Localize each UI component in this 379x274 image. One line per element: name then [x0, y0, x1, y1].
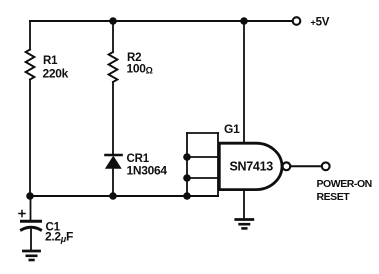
- wire R2 to CR1: [112, 82, 114, 154]
- wire R2 column upper: [112, 21, 114, 52]
- NAND gate U1 SN7413: [219, 143, 282, 189]
- svg-text:SN7413: SN7413: [230, 160, 274, 174]
- wire bottom rail: [30, 195, 218, 197]
- diode CR1: [106, 155, 122, 168]
- terminal +5V: [293, 17, 301, 25]
- wire left rail lower: [29, 80, 31, 197]
- svg-text:+5V: +5V: [311, 17, 330, 29]
- wire gate to ground: [243, 190, 245, 219]
- node junction input bus: [183, 192, 191, 200]
- node junction C1: [26, 192, 34, 200]
- capacitor C1: [19, 211, 41, 230]
- svg-text:RESET: RESET: [317, 191, 351, 203]
- node junction CR1: [109, 192, 117, 200]
- wire output: [290, 165, 321, 167]
- svg-text:100Ω: 100Ω: [127, 62, 153, 76]
- resistor R2: [109, 52, 118, 82]
- svg-text:G1: G1: [224, 122, 240, 136]
- node bus dot 1: [183, 153, 191, 161]
- wire top rail +5V: [30, 20, 292, 22]
- node junction top R2: [109, 17, 117, 25]
- wire CR1 to bottom rail: [112, 168, 114, 196]
- output bubble: [283, 162, 291, 170]
- svg-text:R1: R1: [43, 55, 58, 67]
- wire C1 bottom lead: [30, 230, 32, 251]
- node bus dot 2: [183, 174, 191, 182]
- ground gate: [236, 220, 253, 229]
- wire +5V to gate top: [243, 21, 245, 143]
- terminal output: [322, 162, 330, 170]
- wire left rail upper: [29, 21, 31, 50]
- ground C1: [24, 251, 40, 260]
- svg-text:POWER-ON: POWER-ON: [317, 178, 372, 190]
- input bus rectangle: [187, 133, 218, 196]
- svg-text:1N3064: 1N3064: [127, 164, 168, 178]
- node junction top gate: [240, 17, 248, 25]
- svg-text:2.2μF: 2.2μF: [45, 230, 73, 245]
- resistor R1: [26, 50, 35, 80]
- wire C1 top lead: [30, 196, 32, 220]
- svg-text:220k: 220k: [43, 67, 69, 81]
